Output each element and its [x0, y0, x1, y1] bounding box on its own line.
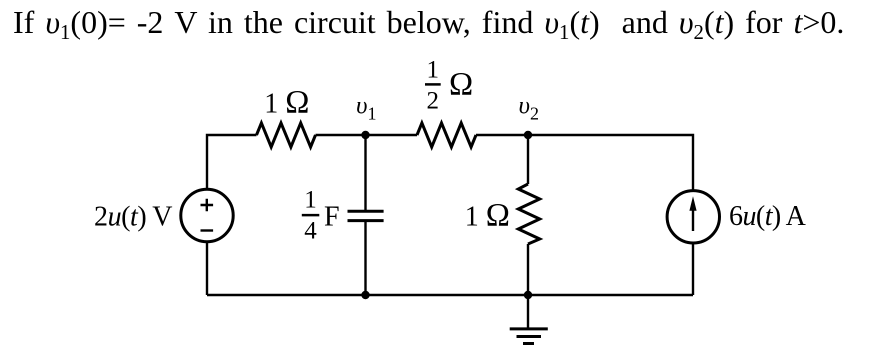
- svg-text:υ1: υ1: [356, 93, 376, 124]
- svg-text:υ2: υ2: [519, 93, 539, 124]
- capacitor C quarter-farad top plate: [348, 210, 384, 213]
- bottom wire: [207, 294, 693, 296]
- svg-text:6u(t) A: 6u(t) A: [729, 201, 807, 232]
- current source arrow head: [689, 196, 696, 211]
- svg-text:2: 2: [427, 88, 440, 115]
- voltage source plus sign: [201, 199, 214, 212]
- capacitor branch top wire: [364, 135, 366, 211]
- title text: [13, 4, 844, 41]
- voltage source minus sign: [201, 229, 214, 231]
- resistor R3 1-ohm vertical zigzag: [518, 184, 539, 244]
- capacitor branch bottom wire: [364, 221, 366, 295]
- label fraction bar of C value: [302, 214, 320, 217]
- node at R3 bottom: [524, 291, 532, 299]
- resistor R1 1-ohm horizontal zigzag: [257, 123, 316, 147]
- svg-text:1: 1: [304, 186, 317, 213]
- svg-text:2u(t) V: 2u(t) V: [94, 201, 172, 232]
- svg-text:1: 1: [427, 57, 440, 84]
- node at capacitor bottom: [361, 291, 369, 299]
- svg-text:F: F: [324, 202, 340, 233]
- wire current source bottom: [692, 243, 694, 295]
- svg-text:Ω: Ω: [449, 67, 473, 103]
- svg-text:4: 4: [304, 217, 317, 244]
- label fraction bar of R2 value: [425, 83, 441, 86]
- voltage source V1 circle: [181, 189, 233, 241]
- wire R2 to node v2 to right corner: [476, 135, 693, 191]
- ground bar 2: [517, 335, 542, 338]
- node v2 dot: [524, 131, 532, 139]
- ground bar 1: [510, 327, 548, 330]
- wire v2 to R3: [527, 135, 529, 184]
- wire source bottom to bottom wire: [206, 242, 208, 296]
- wire top-left (source top to R1): [207, 135, 257, 190]
- current source arrow shaft: [692, 208, 694, 231]
- resistor R2 half-ohm horizontal zigzag: [417, 123, 476, 147]
- ground stub wire: [527, 295, 529, 329]
- ground bar 3: [523, 342, 534, 345]
- wire R3 to bottom node: [527, 244, 529, 295]
- svg-text:1 Ω: 1 Ω: [264, 85, 309, 121]
- node v1 dot: [361, 131, 369, 139]
- svg-text:1 Ω: 1 Ω: [465, 198, 510, 234]
- wire R1 to node v1 to R2: [316, 134, 418, 136]
- capacitor C quarter-farad bottom plate: [348, 219, 384, 222]
- current source I1 circle: [667, 191, 719, 243]
